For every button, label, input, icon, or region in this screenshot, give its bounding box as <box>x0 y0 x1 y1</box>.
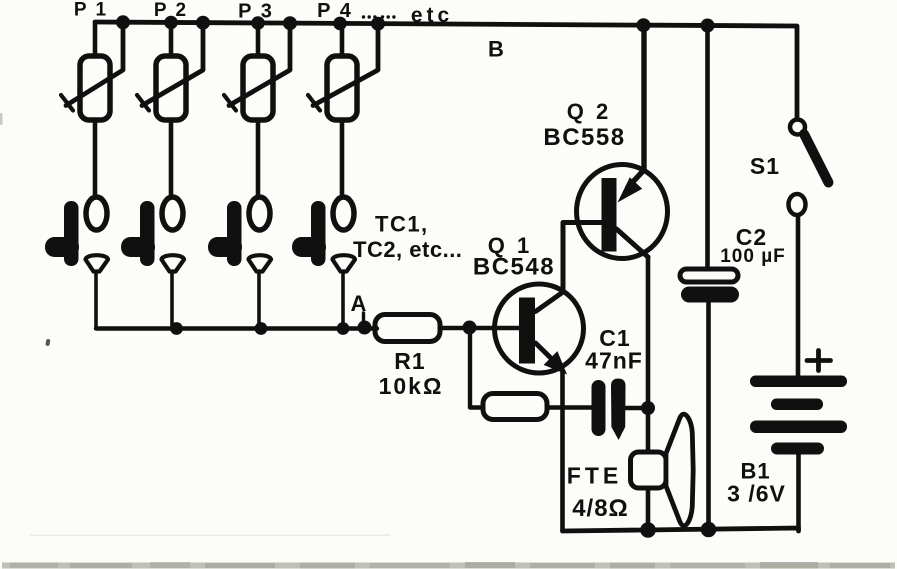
resistor (feedback, unlabeled) body <box>483 394 547 420</box>
junction dot P4 top lead <box>333 17 347 31</box>
battery B1 <box>750 376 847 455</box>
svg-text:P 2: P 2 <box>154 0 188 21</box>
svg-text:A: A <box>351 291 367 316</box>
touch contact TC4 <box>292 197 355 329</box>
junction dot P2 top lead <box>164 16 178 30</box>
svg-text:BC548: BC548 <box>473 254 555 281</box>
wire: Q1 emitter down to ground bus <box>560 371 565 531</box>
wire: R1 to Q1 base junction <box>440 326 519 331</box>
scan artifact: faint dotted line above bottom band <box>30 535 390 537</box>
svg-text:4/8Ω: 4/8Ω <box>572 495 629 522</box>
potentiometer P1 <box>61 23 123 198</box>
label etc dots <box>362 15 396 18</box>
svg-text:P 1: P 1 <box>74 0 108 21</box>
touch contact TC3 <box>208 197 271 329</box>
junction dot P1 wiper on bus <box>116 15 130 29</box>
wire: bottom ground bus <box>563 528 799 531</box>
svg-text:BC558: BC558 <box>543 124 625 151</box>
capacitor C1 plates <box>592 379 626 441</box>
junction dot collector line on ground bus <box>640 522 656 538</box>
svg-text:TC2, etc...: TC2, etc... <box>353 237 462 262</box>
wire: feedback resistor to C1 <box>547 405 592 409</box>
switch S1 <box>789 120 829 376</box>
svg-text:TC1,: TC1, <box>375 212 429 237</box>
junction dot TC2 on rail <box>170 322 183 335</box>
scan artifact: speck near TC1 stem <box>45 339 50 347</box>
potentiometer P2 <box>137 23 203 198</box>
touch contact TC1 <box>45 197 108 329</box>
junction dot Q1 base node <box>463 321 477 335</box>
scan artifact: cropped text band at bottom <box>2 562 895 569</box>
wire: node A rail from TC1 to R1 <box>96 326 377 330</box>
svg-text:etc: etc <box>411 4 453 27</box>
resistor R1 body <box>375 315 440 342</box>
svg-text:10kΩ: 10kΩ <box>379 373 444 399</box>
wire: speaker to ground bus <box>646 488 651 530</box>
junction dot P3 top lead <box>251 16 265 30</box>
svg-text:Q 2: Q 2 <box>567 99 611 124</box>
loudspeaker FTE <box>631 414 694 526</box>
junction dot C2 on top bus <box>701 19 715 33</box>
svg-text:FTE: FTE <box>567 463 622 489</box>
svg-text:B: B <box>488 37 504 62</box>
svg-text:100 µF: 100 µF <box>720 246 786 267</box>
junction dot P4 wiper on bus <box>371 17 385 31</box>
junction dot C2 on ground bus <box>701 522 717 538</box>
junction dot P2 wiper on bus <box>196 16 210 30</box>
transistor Q2 BC558 <box>577 25 668 258</box>
wire: Q2 collector line down to speaker <box>646 257 651 452</box>
svg-text:R1: R1 <box>394 348 425 374</box>
node A dot and tick <box>358 313 372 335</box>
svg-text:47nF: 47nF <box>585 348 643 374</box>
potentiometer P4 <box>308 24 378 198</box>
potentiometer P3 <box>224 23 290 197</box>
wire: feedback branch down from Q1 base node <box>470 328 481 408</box>
svg-text:P 4: P 4 <box>317 0 353 22</box>
scan artifact: speck left edge <box>0 113 3 125</box>
wire: C1 to Q2 collector line <box>626 406 643 410</box>
wire: battery negative to ground bus <box>796 455 801 530</box>
junction dot Q2 emitter on bus <box>637 18 651 32</box>
svg-text:S1: S1 <box>750 153 780 179</box>
junction dot C1 to collector line <box>641 401 655 415</box>
touch contact TC2 <box>121 197 184 329</box>
junction dot P3 wiper on bus <box>283 16 297 30</box>
junction dot TC3 on rail <box>255 322 268 335</box>
wire: top bus node B from P1 to S1 <box>95 22 797 119</box>
battery plus sign <box>807 351 831 371</box>
junction dot TC4 on rail <box>337 322 350 335</box>
svg-text:P 3: P 3 <box>238 1 274 23</box>
capacitor C2 <box>680 26 739 531</box>
svg-text:3 /6V: 3 /6V <box>727 481 786 507</box>
transistor Q1 BC548 <box>495 223 603 375</box>
